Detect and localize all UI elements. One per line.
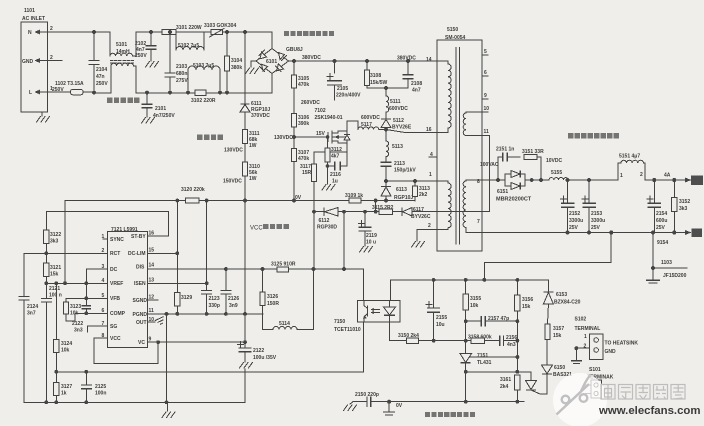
resistor R3123 10k — [63, 298, 81, 321]
svg-text:130VDC: 130VDC — [274, 135, 293, 141]
svg-text:3127: 3127 — [61, 384, 72, 390]
svg-text:TL431: TL431 — [477, 360, 492, 366]
svg-text:RCT: RCT — [110, 251, 120, 257]
wire ISEN row (pin13) — [148, 282, 207, 284]
node 6112/3115 junction — [342, 210, 346, 214]
wire row181 to transformer pin 1 — [386, 180, 437, 182]
svg-text:5111: 5111 — [390, 99, 401, 105]
svg-text:3121: 3121 — [50, 265, 61, 271]
svg-text:3123: 3123 — [70, 304, 81, 310]
svg-text:VCC: VCC — [110, 336, 121, 342]
svg-text:10: 10 — [484, 106, 490, 112]
svg-text:VCC: VCC — [250, 226, 263, 232]
resistor R3106 390k — [291, 88, 309, 127]
resistor R3157 15k — [545, 305, 565, 340]
diode D6152 (diagonal) — [526, 375, 548, 395]
inductor L5151 4u7 — [618, 154, 645, 181]
transformer pin 4 stub — [429, 156, 437, 158]
capacitor C2103 680n 275V (X-cap) — [165, 30, 189, 94]
resistor R3115 2R2 — [372, 201, 394, 215]
resistor R3120 220k — [181, 187, 205, 203]
ground at bridge left — [246, 61, 259, 74]
svg-text:3161: 3161 — [500, 377, 511, 383]
vertical mid-rail to bottom rail — [166, 314, 168, 402]
svg-text:7150: 7150 — [334, 319, 345, 325]
svg-text:2157 47p: 2157 47p — [488, 316, 509, 322]
svg-text:3112: 3112 — [331, 147, 342, 153]
svg-text:7: 7 — [477, 219, 480, 225]
wire COMP row (pin6) — [66, 313, 108, 321]
svg-text:www.elecfans.com: www.elecfans.com — [598, 405, 701, 417]
svg-text:5151 4μ7: 5151 4μ7 — [619, 154, 640, 160]
svg-text:COMP: COMP — [110, 311, 126, 317]
fuse F1102 T3.15A 250V — [48, 81, 94, 95]
svg-text:2126: 2126 — [228, 296, 239, 302]
transformer primary winding lower (1-2) — [417, 181, 451, 241]
svg-text:9: 9 — [149, 337, 152, 343]
label 整流滤波输出电路 — [568, 133, 619, 138]
wire output return rail — [466, 232, 688, 234]
jumper 9154 / 1103 JF15D200 — [646, 233, 687, 284]
svg-text:RGP30D: RGP30D — [317, 225, 337, 231]
svg-text:7151: 7151 — [477, 353, 488, 359]
wire SGND stub (pin12) — [148, 299, 159, 301]
svg-text:2123: 2123 — [209, 296, 220, 302]
resistor R3158 600k — [466, 335, 493, 344]
varistor R3103 GOK304 — [204, 23, 236, 37]
diode D5112 BYV26E — [381, 112, 412, 131]
svg-text:4k7: 4k7 — [331, 154, 340, 160]
terminal S101 — [586, 367, 614, 398]
resistor R3111 68k 1W — [242, 112, 259, 149]
svg-text:11: 11 — [149, 308, 155, 314]
svg-text:2SK1940-01: 2SK1940-01 — [315, 115, 343, 121]
capacitor C2155 10u — [426, 280, 447, 341]
svg-text:5112: 5112 — [393, 118, 404, 124]
svg-text:2116: 2116 — [330, 172, 341, 178]
capacitor C2121 100n — [41, 283, 62, 402]
resistor R3105 470k — [291, 61, 309, 88]
svg-text:470k: 470k — [298, 156, 309, 162]
watermark logo circle — [553, 373, 607, 426]
ground below AC inlet box — [37, 112, 50, 122]
svg-text:15k/5W: 15k/5W — [370, 80, 388, 86]
pin1 SYNC stub — [103, 238, 108, 240]
resistor R3150 2k4 — [398, 333, 466, 343]
resistor R3124 10k — [54, 281, 73, 371]
zener D6153 BZX84-C20 — [543, 280, 580, 306]
wire VC row (pin9) — [148, 341, 246, 343]
diode D6113 RGP10J — [381, 181, 413, 201]
svg-text:3103 GOK304: 3103 GOK304 — [204, 23, 236, 29]
svg-text:380k: 380k — [231, 65, 242, 71]
svg-text:2155: 2155 — [436, 315, 447, 321]
svg-text:1: 1 — [620, 173, 623, 179]
transformer T5150 SM-0054 — [437, 27, 482, 251]
label 取样误差放大电路 — [425, 412, 475, 417]
svg-text:15k: 15k — [50, 272, 59, 278]
svg-text:1W: 1W — [249, 176, 257, 182]
svg-text:SG: SG — [110, 324, 117, 330]
resistor R3104 380k — [224, 32, 242, 95]
svg-text:2119: 2119 — [366, 233, 377, 239]
svg-text:L: L — [29, 90, 32, 96]
svg-text:4n3: 4n3 — [507, 342, 516, 348]
svg-text:15k: 15k — [553, 333, 562, 339]
resistor R3112 4k7 — [325, 135, 342, 184]
svg-text:9: 9 — [484, 93, 487, 99]
svg-text:1: 1 — [584, 334, 587, 340]
svg-text:4n7/250V: 4n7/250V — [153, 113, 175, 119]
chassis ground below 0V node — [384, 402, 395, 415]
svg-text:GND: GND — [22, 59, 34, 65]
resistor R3129 — [175, 201, 193, 314]
wire VCC pin8 loop to VC — [94, 338, 158, 364]
svg-text:5101: 5101 — [116, 42, 127, 48]
svg-text:SYNC: SYNC — [110, 237, 124, 243]
transformer primary winding upper (14-16) — [437, 61, 451, 133]
node clamp junction — [384, 179, 388, 183]
capacitor C2156 4n3 — [493, 335, 517, 348]
wire SG row (pin7) — [88, 326, 108, 332]
svg-text:3k3: 3k3 — [50, 239, 59, 245]
bridge rectifier D6101 GBU8J — [256, 47, 303, 74]
svg-text:3108: 3108 — [370, 73, 381, 79]
capacitor C2108 4n7 — [403, 61, 423, 94]
wire PGND mid rail (pin11) — [148, 313, 264, 315]
svg-text:680n: 680n — [176, 71, 187, 77]
svg-text:2151 1n: 2151 1n — [496, 147, 514, 153]
svg-text:150R: 150R — [267, 301, 279, 307]
svg-text:S101: S101 — [589, 367, 601, 373]
svg-text:330p: 330p — [209, 303, 220, 309]
IC U7121 L5991 — [102, 227, 155, 348]
svg-text:10u: 10u — [436, 322, 445, 328]
capacitor C2122 3n3 (comp) — [72, 298, 91, 333]
resistor R3109 1k (in 0V rail) — [345, 193, 363, 203]
svg-text:5113: 5113 — [392, 144, 403, 150]
resistor R3152 3k3 — [672, 180, 691, 233]
svg-text:10k: 10k — [61, 348, 70, 354]
capacitor C2105 220n/400V — [327, 61, 361, 100]
dual diode D6151 MBR20200CT — [496, 171, 532, 203]
svg-text:10k: 10k — [470, 303, 479, 309]
svg-text:6150: 6150 — [554, 365, 565, 371]
svg-text:5150: 5150 — [447, 27, 458, 33]
svg-text:5155: 5155 — [551, 170, 562, 176]
wire feedback from return rail — [484, 233, 611, 280]
svg-text:15R: 15R — [302, 170, 312, 176]
svg-text:2108: 2108 — [411, 81, 422, 87]
vertical from 0V rail to ISEN area — [206, 201, 208, 284]
svg-text:150p/1kV: 150p/1kV — [394, 168, 416, 174]
svg-text:DC-LIM: DC-LIM — [128, 251, 146, 257]
svg-text:6101: 6101 — [266, 59, 277, 65]
terminal S102 — [571, 317, 639, 364]
svg-text:DC: DC — [110, 267, 118, 273]
resistor R3107 470k — [291, 127, 309, 201]
inductor L5155 — [549, 170, 568, 180]
arrow -B output — [685, 228, 702, 237]
wire row 269.5 (3125 row) — [263, 268, 364, 270]
svg-text:4n7: 4n7 — [412, 88, 421, 94]
svg-text:ISEN: ISEN — [134, 281, 146, 287]
node snubber junction — [384, 128, 388, 132]
svg-text:2156: 2156 — [506, 335, 517, 341]
svg-text:15k: 15k — [522, 304, 531, 310]
svg-text:2122: 2122 — [253, 348, 264, 354]
svg-text:GND: GND — [605, 349, 617, 355]
transformer secondary winding (8-7) — [463, 180, 482, 233]
svg-text:6112: 6112 — [319, 218, 330, 224]
wire VCC riser from pin 11 — [489, 135, 491, 211]
transformer right pin stubs 5 6 9 10 11 — [482, 49, 490, 135]
svg-text:1103: 1103 — [661, 260, 672, 266]
capacitor C2123 330p — [201, 283, 220, 314]
svg-text:100n: 100n — [95, 391, 106, 397]
wire output rail +B — [527, 179, 618, 181]
svg-text:25V: 25V — [569, 225, 579, 231]
inductor L5103 7u5 — [186, 63, 222, 95]
svg-text:3155: 3155 — [470, 296, 481, 302]
svg-text:3n9: 3n9 — [229, 303, 238, 309]
svg-text:2152: 2152 — [569, 211, 580, 217]
capacitor C2119 10u — [359, 210, 378, 252]
wire N line — [48, 31, 110, 33]
svg-text:BYV26E: BYV26E — [392, 125, 412, 131]
svg-text:600u: 600u — [656, 218, 667, 224]
wire rail y372 — [56, 371, 363, 373]
wire ST-BY loop (pin16) — [46, 211, 168, 236]
svg-text:SGND: SGND — [133, 298, 148, 304]
svg-text:6117: 6117 — [413, 207, 424, 213]
svg-text:370VDC: 370VDC — [251, 113, 270, 119]
inductor L5111 600VDC — [384, 86, 408, 112]
capacitor C2126 3n9 — [220, 269, 239, 314]
wire sampling top rail — [390, 279, 548, 281]
wire output rail after L5151 — [645, 179, 688, 181]
svg-text:1101: 1101 — [24, 8, 35, 14]
svg-text:4: 4 — [430, 152, 433, 158]
inductor L5114 — [263, 270, 314, 330]
wire L line — [94, 92, 111, 94]
svg-text:VC: VC — [138, 340, 145, 346]
label VCC供电电路 — [250, 224, 289, 232]
wire 380VDC rail — [289, 60, 438, 62]
ground below 3112 — [322, 185, 335, 191]
capacitor C2102 4n7 250V (Y-cap) — [135, 30, 159, 67]
svg-text:6153: 6153 — [556, 292, 567, 298]
svg-text:VFB: VFB — [110, 296, 120, 302]
svg-text:10 u: 10 u — [366, 240, 376, 246]
wire 0V rail left end riser — [64, 201, 66, 284]
wire RCT row (pin2) — [24, 252, 108, 254]
label 启动电路 — [197, 135, 223, 140]
svg-text:TO HEATSINK: TO HEATSINK — [605, 341, 639, 347]
resistor R3101 220R — [162, 25, 202, 35]
svg-text:25V: 25V — [656, 225, 666, 231]
resistor R3110 56k 1W — [242, 144, 260, 202]
svg-text:4A: 4A — [664, 173, 671, 179]
optocoupler U7150 TCET11010 — [334, 300, 400, 333]
inductor L5102 7u5 (parallel with 3101) — [176, 32, 204, 50]
svg-text:3102 220R: 3102 220R — [191, 98, 216, 104]
svg-text:100VAC: 100VAC — [480, 162, 499, 168]
svg-text:3156: 3156 — [522, 297, 533, 303]
svg-text:2103: 2103 — [176, 64, 187, 70]
svg-text:ST-BY: ST-BY — [131, 234, 146, 240]
arrow +B output — [685, 176, 703, 186]
svg-text:3n7: 3n7 — [27, 311, 36, 317]
svg-text:250V: 250V — [96, 81, 108, 87]
svg-text:8: 8 — [477, 179, 480, 185]
diode D6150 BAS321 — [542, 340, 573, 379]
pin L arrow — [35, 90, 49, 95]
svg-text:9154: 9154 — [657, 240, 668, 246]
zener D6111 RGP10J 370VDC — [240, 32, 270, 119]
ground on bottom rail — [162, 402, 175, 417]
wire DIS row (pin14) — [148, 268, 263, 270]
label 600VDC + inductor L5117 — [347, 115, 386, 130]
svg-text:TCET11010: TCET11010 — [334, 327, 361, 333]
svg-text:BZX84-C20: BZX84-C20 — [554, 300, 581, 306]
svg-text:130VDC: 130VDC — [224, 148, 243, 154]
svg-text:3157: 3157 — [553, 326, 564, 332]
wire DC-LIM row (pin15) — [148, 252, 178, 254]
wire VCC row — [314, 211, 490, 213]
svg-text:2: 2 — [640, 172, 643, 178]
wire opto emitter to rail372 — [362, 322, 364, 372]
wire bottom rail — [24, 401, 245, 403]
svg-text:275V: 275V — [176, 78, 188, 84]
capacitor C2116 1u — [326, 152, 347, 185]
ground left of C2150 — [344, 402, 357, 411]
svg-text:3n3: 3n3 — [74, 328, 83, 334]
svg-text:100 n: 100 n — [49, 293, 62, 299]
svg-text:2121: 2121 — [49, 286, 60, 292]
svg-text:0V: 0V — [295, 195, 302, 201]
snubber C2151 1n — [496, 147, 520, 181]
svg-text:600VDC: 600VDC — [361, 115, 380, 121]
capacitor C2113 150p/1kV — [381, 161, 417, 181]
svg-text:250V: 250V — [135, 53, 147, 59]
svg-text:25V: 25V — [591, 225, 601, 231]
svg-text:13: 13 — [149, 278, 155, 284]
resistor R3161 2k4 — [500, 375, 520, 402]
svg-text:BYV26C: BYV26C — [411, 214, 431, 220]
svg-text:N: N — [28, 30, 32, 36]
svg-text:1k: 1k — [61, 391, 67, 397]
wire VREF row (pin4) — [46, 282, 107, 284]
svg-text:600VDC: 600VDC — [389, 106, 408, 112]
svg-text:150VDC: 150VDC — [223, 179, 242, 185]
svg-text:1: 1 — [429, 172, 432, 178]
svg-text:220n/400V: 220n/400V — [336, 93, 361, 99]
svg-text:3300u: 3300u — [591, 218, 605, 224]
svg-text:3300u: 3300u — [569, 218, 583, 224]
wire LED cathode to 3150 — [390, 322, 407, 341]
svg-text:2113: 2113 — [394, 161, 405, 167]
wire OUT stub + ground (pin10) — [148, 317, 166, 326]
svg-text:2122: 2122 — [72, 321, 83, 327]
svg-text:OUT: OUT — [136, 320, 147, 326]
diode D6117 BYV26C — [402, 207, 431, 220]
svg-text:2154: 2154 — [656, 211, 667, 217]
svg-text:JF15D200: JF15D200 — [663, 273, 687, 279]
svg-text:100u /35V: 100u /35V — [253, 355, 277, 361]
svg-text:6113: 6113 — [396, 187, 407, 193]
svg-text:2101: 2101 — [155, 106, 166, 112]
svg-text:GBU8J: GBU8J — [286, 47, 303, 53]
resistor R3125 910R — [271, 262, 296, 273]
svg-text:DIS: DIS — [136, 265, 145, 271]
svg-text:3122: 3122 — [50, 232, 61, 238]
wire top AC line — [176, 31, 211, 33]
capacitor C2153 3300u 25V — [582, 180, 605, 233]
svg-text:14: 14 — [149, 263, 155, 269]
capacitor C2124 3n7 — [18, 253, 38, 402]
resistor R3102 220R — [191, 90, 216, 104]
inductor L5113 — [386, 130, 403, 163]
diode D6112 RGP30D — [317, 208, 338, 231]
node N-2104 — [92, 30, 96, 34]
svg-text:2125: 2125 — [95, 384, 106, 390]
svg-text:2: 2 — [428, 223, 431, 229]
svg-text:3104: 3104 — [231, 58, 242, 64]
wire to transformer pin 16 — [386, 130, 437, 133]
resistor R3155 10k — [463, 280, 481, 352]
svg-text:1W: 1W — [249, 143, 257, 149]
shunt reg U7151 TL431 — [460, 352, 517, 402]
svg-text:260VDC: 260VDC — [301, 100, 320, 106]
wire secondary 100VAC (pin 8) — [482, 179, 498, 181]
transformer aux winding (10-11) — [463, 112, 482, 135]
svg-text:PGND: PGND — [133, 312, 148, 318]
svg-text:390k: 390k — [298, 121, 309, 127]
svg-text:0V: 0V — [396, 403, 403, 409]
svg-text:3120 220k: 3120 220k — [181, 187, 205, 193]
wire DC pin3 — [86, 269, 107, 283]
svg-text:2124: 2124 — [27, 304, 38, 310]
wire 0V rail — [65, 200, 415, 202]
svg-text:VREF: VREF — [110, 281, 123, 287]
svg-text:16: 16 — [426, 127, 432, 133]
svg-text:6151: 6151 — [497, 189, 508, 195]
wire diode row 372 — [466, 372, 531, 380]
svg-text:2153: 2153 — [591, 211, 602, 217]
svg-text:2: 2 — [50, 26, 53, 32]
svg-text:TERMINAL: TERMINAL — [575, 326, 601, 332]
pin GND arrow — [35, 58, 63, 63]
svg-text:11: 11 — [484, 129, 490, 135]
capacitor C2125 100n — [81, 372, 107, 403]
svg-text:15: 15 — [149, 248, 155, 254]
connector J1101 AC INLET box — [21, 8, 53, 112]
svg-text:15V: 15V — [316, 131, 326, 137]
svg-text:47n: 47n — [96, 74, 105, 80]
wire sampling bottom rail — [389, 401, 524, 403]
svg-text:5: 5 — [484, 49, 487, 55]
svg-text:3101 220W: 3101 220W — [176, 25, 202, 31]
ground at transformer pin 2 — [412, 242, 425, 248]
wire to bridge top — [223, 32, 273, 49]
common-mode choke L5101 14mH — [110, 32, 162, 93]
capacitor C2152 3300u 25V — [561, 180, 584, 233]
capacitor C2122b 100u/35V (VCC) — [238, 201, 277, 403]
svg-text:470k: 470k — [298, 82, 309, 88]
snubber R3151 33R — [522, 149, 563, 180]
svg-text:1u: 1u — [332, 179, 338, 185]
